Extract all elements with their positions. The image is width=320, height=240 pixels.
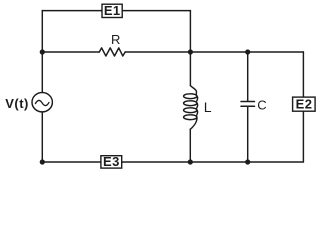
wire left rail lower: [41, 112, 43, 162]
voltage source V(t) circle: [32, 93, 52, 112]
svg-text:R: R: [111, 32, 120, 47]
wire R row right lead: [125, 51, 190, 53]
wire inductor column bottom: [189, 129, 191, 162]
svg-text:E2: E2: [296, 97, 313, 112]
junction dot at R row left: [40, 49, 45, 54]
svg-text:E3: E3: [103, 154, 120, 169]
inductor L coil: [184, 86, 198, 130]
voltage source sine symbol: [35, 100, 49, 105]
wire left rail upper: [41, 11, 43, 93]
wire capacitor column bottom: [247, 107, 249, 162]
junction dot at capacitor top: [245, 49, 250, 54]
meter box E1: [102, 4, 122, 17]
capacitor C bottom plate: [241, 105, 255, 107]
meter box E3: [101, 156, 122, 168]
wire bottom rail left of E3: [42, 161, 101, 163]
svg-text:V(t): V(t): [5, 96, 29, 111]
wire E1 box to top-right corner: [122, 10, 190, 12]
wire inductor column top: [189, 52, 191, 86]
resistor R zigzag: [99, 48, 125, 56]
wire top-left from corner to E1 box: [42, 10, 102, 12]
wire R row left lead: [42, 51, 99, 53]
svg-text:L: L: [204, 99, 212, 115]
svg-text:C: C: [257, 98, 266, 113]
junction dot bottom-left: [40, 159, 45, 164]
wire top branch to capacitor and E2 columns: [190, 51, 303, 53]
junction dot capacitor bottom: [245, 159, 250, 164]
meter box E2: [293, 97, 316, 111]
wire bottom rail right of E3: [122, 161, 304, 163]
junction dot at R row / inductor top: [188, 49, 193, 54]
wire top-right corner down to R row: [189, 11, 191, 52]
wire capacitor column top: [247, 52, 249, 101]
svg-text:E1: E1: [104, 3, 121, 18]
wire E2 column bottom: [302, 111, 304, 162]
wire E2 column top: [302, 52, 304, 97]
capacitor C top plate: [241, 101, 255, 103]
junction dot inductor bottom: [188, 159, 193, 164]
